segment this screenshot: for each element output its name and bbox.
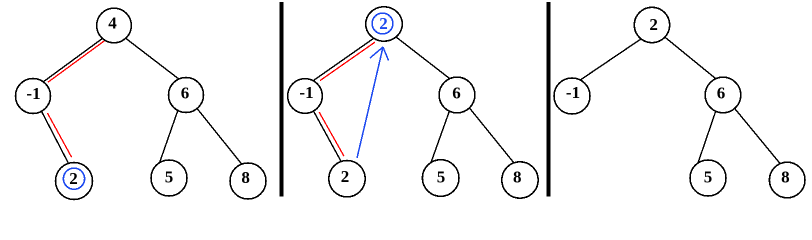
svg-text:6: 6 <box>452 84 461 103</box>
wire edge -1 to 2 <box>37 102 72 170</box>
node 6 (right) <box>705 77 741 113</box>
wire red highlight root2 to -1 <box>320 42 375 81</box>
wire red highlight -1 to 2 (middle) <box>319 112 344 156</box>
svg-text:5: 5 <box>437 168 446 187</box>
node -1 (middle) <box>288 79 323 114</box>
svg-text:2: 2 <box>341 167 350 186</box>
node 6 (middle) <box>439 77 475 113</box>
wire edge 6 to 8 (right) <box>732 105 783 167</box>
node 5 (middle) <box>422 160 459 197</box>
node 2 highlighted (left, double circle) <box>56 163 93 200</box>
node 2 (middle bottom) <box>329 161 365 197</box>
svg-text:5: 5 <box>704 168 713 187</box>
wire red highlight -1 to 2 <box>47 113 71 157</box>
node 4 (left root) <box>97 8 132 43</box>
node 2 root highlighted (middle, double circle, blue text) <box>366 7 403 41</box>
wire red highlight 4 to -1 <box>48 40 105 82</box>
svg-text:2: 2 <box>649 15 658 34</box>
separator bar 1 <box>279 2 283 197</box>
wire edge 6 to 5 (middle) <box>429 106 451 167</box>
wire edge root2 to 6 <box>394 35 452 80</box>
node 8 (middle) <box>502 162 538 198</box>
node 5 (right) <box>690 160 726 196</box>
wire edge 4 to -1 <box>38 35 107 86</box>
separator bar 2 <box>546 2 550 197</box>
svg-text:4: 4 <box>108 14 117 33</box>
node -1 (right) <box>554 78 590 114</box>
wire edge root2 to -1 <box>309 38 374 84</box>
node 8 (right) <box>769 162 805 198</box>
blue arrow from node 2 to root <box>357 47 389 158</box>
wire edge 6 to 5 <box>158 106 179 166</box>
wire edge 6 to 8 <box>194 105 245 169</box>
svg-text:-1: -1 <box>299 83 313 102</box>
node 5 (left) <box>151 160 187 196</box>
wire edge 2 to -1 (right) <box>576 38 643 83</box>
wire edge 2 to 6 (right) <box>663 36 719 82</box>
wire edge 4 to 6 <box>118 32 186 84</box>
svg-text:6: 6 <box>717 83 726 102</box>
svg-text:-1: -1 <box>566 83 580 102</box>
node -1 (left) <box>16 79 51 114</box>
node 2 root (right) <box>634 7 669 42</box>
wire edge 6 to 8 (middle) <box>466 104 517 167</box>
svg-text:8: 8 <box>781 167 790 186</box>
svg-text:8: 8 <box>241 168 250 187</box>
svg-text:8: 8 <box>513 167 522 186</box>
wire edge 6 to 5 (right) <box>697 106 718 167</box>
wire edge -1 to 2 (middle) <box>311 107 344 167</box>
svg-text:6: 6 <box>181 83 190 102</box>
node 6 (left) <box>169 78 204 113</box>
node 8 (left) <box>230 163 266 199</box>
svg-text:2: 2 <box>69 169 78 188</box>
svg-text:5: 5 <box>165 167 174 186</box>
svg-text:2: 2 <box>379 14 388 33</box>
svg-text:-1: -1 <box>26 84 40 103</box>
